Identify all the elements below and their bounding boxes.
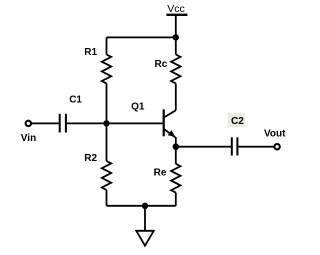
wire R1 top stub bbox=[106, 37, 108, 54]
wire bottom rail bbox=[107, 205, 176, 207]
capacitor C2 bbox=[228, 113, 246, 156]
svg-text:Vcc: Vcc bbox=[167, 3, 185, 15]
terminal Vin bbox=[21, 121, 36, 144]
resistor R2 bbox=[84, 153, 111, 190]
wire R2 bottom bbox=[106, 190, 108, 206]
ground bbox=[136, 206, 153, 246]
node ground junction bbox=[142, 203, 148, 209]
wire Rc top stub bbox=[175, 37, 177, 54]
Vcc power symbol bbox=[166, 3, 187, 37]
terminal Vout bbox=[264, 129, 286, 150]
wire C1 to base bbox=[66, 122, 164, 124]
svg-text:R1: R1 bbox=[84, 47, 97, 58]
svg-text:C2: C2 bbox=[231, 116, 244, 127]
resistor R1 bbox=[84, 47, 111, 84]
svg-text:R2: R2 bbox=[84, 153, 97, 164]
svg-text:Re: Re bbox=[154, 168, 167, 179]
svg-text:Vin: Vin bbox=[21, 133, 36, 144]
wire emitter to C2 bbox=[176, 146, 232, 148]
svg-text:Q1: Q1 bbox=[131, 101, 145, 112]
svg-text:Vout: Vout bbox=[264, 129, 286, 140]
node emitter junction bbox=[173, 144, 179, 150]
wire R1 bottom to base junction to R2 top bbox=[106, 83, 108, 161]
svg-text:C1: C1 bbox=[69, 94, 82, 105]
resistor Rc bbox=[155, 55, 181, 84]
transistor Q1 bbox=[131, 101, 176, 147]
capacitor C1 bbox=[60, 94, 83, 132]
wire Re bottom bbox=[175, 193, 177, 206]
node base junction bbox=[103, 120, 109, 126]
wire Vin to C1 bbox=[31, 122, 60, 124]
wire C2 to Vout bbox=[237, 146, 274, 148]
node Vcc junction bbox=[173, 34, 179, 40]
resistor Re bbox=[154, 164, 181, 193]
wire Rc bottom to collector bbox=[175, 83, 177, 110]
svg-text:Rc: Rc bbox=[155, 59, 168, 70]
wire emitter junction to Re bbox=[175, 147, 177, 164]
wire top rail bbox=[107, 36, 176, 38]
